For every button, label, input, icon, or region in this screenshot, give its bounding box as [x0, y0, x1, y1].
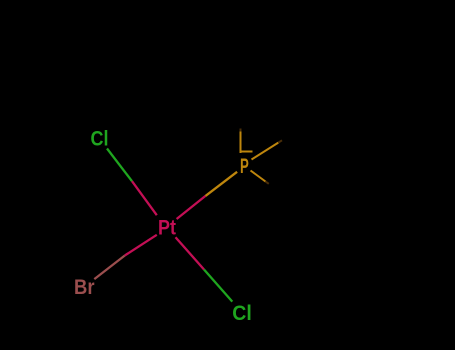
- svg-text:Pt: Pt: [158, 217, 176, 240]
- wire P-phenyl up-right dark tip: [278, 140, 282, 142]
- svg-text:P: P: [240, 155, 249, 178]
- wire Pt-Cl2 (Pt half, crimson): [176, 237, 205, 269]
- wire Pt-P (Pt half, crimson): [177, 196, 206, 219]
- wire Pt-Cl2 (Cl half, green): [204, 270, 232, 302]
- wire phenyl ring tick (gold): [241, 151, 253, 153]
- wire P-phenyl vertical (P half, gold): [240, 132, 242, 154]
- wire P-phenyl down-right dark tip: [266, 182, 269, 184]
- svg-text:Cl: Cl: [232, 302, 252, 325]
- wire P-phenyl down-right (P half, gold): [251, 171, 266, 182]
- svg-text:Cl: Cl: [91, 128, 109, 151]
- wire Pt-Br (Br half, brown): [94, 256, 125, 280]
- wire Cl1-Pt (Pt half, crimson): [132, 181, 157, 215]
- wire Cl1-Pt (Cl half, green): [107, 149, 132, 182]
- wire Pt-Br (Pt half, crimson): [125, 235, 157, 256]
- wire P-phenyl vertical dark tip: [240, 129, 242, 132]
- svg-text:Br: Br: [74, 276, 95, 299]
- wire P-phenyl up-right (P half, gold): [252, 143, 279, 160]
- wire Pt-P (P half, gold): [206, 172, 238, 196]
